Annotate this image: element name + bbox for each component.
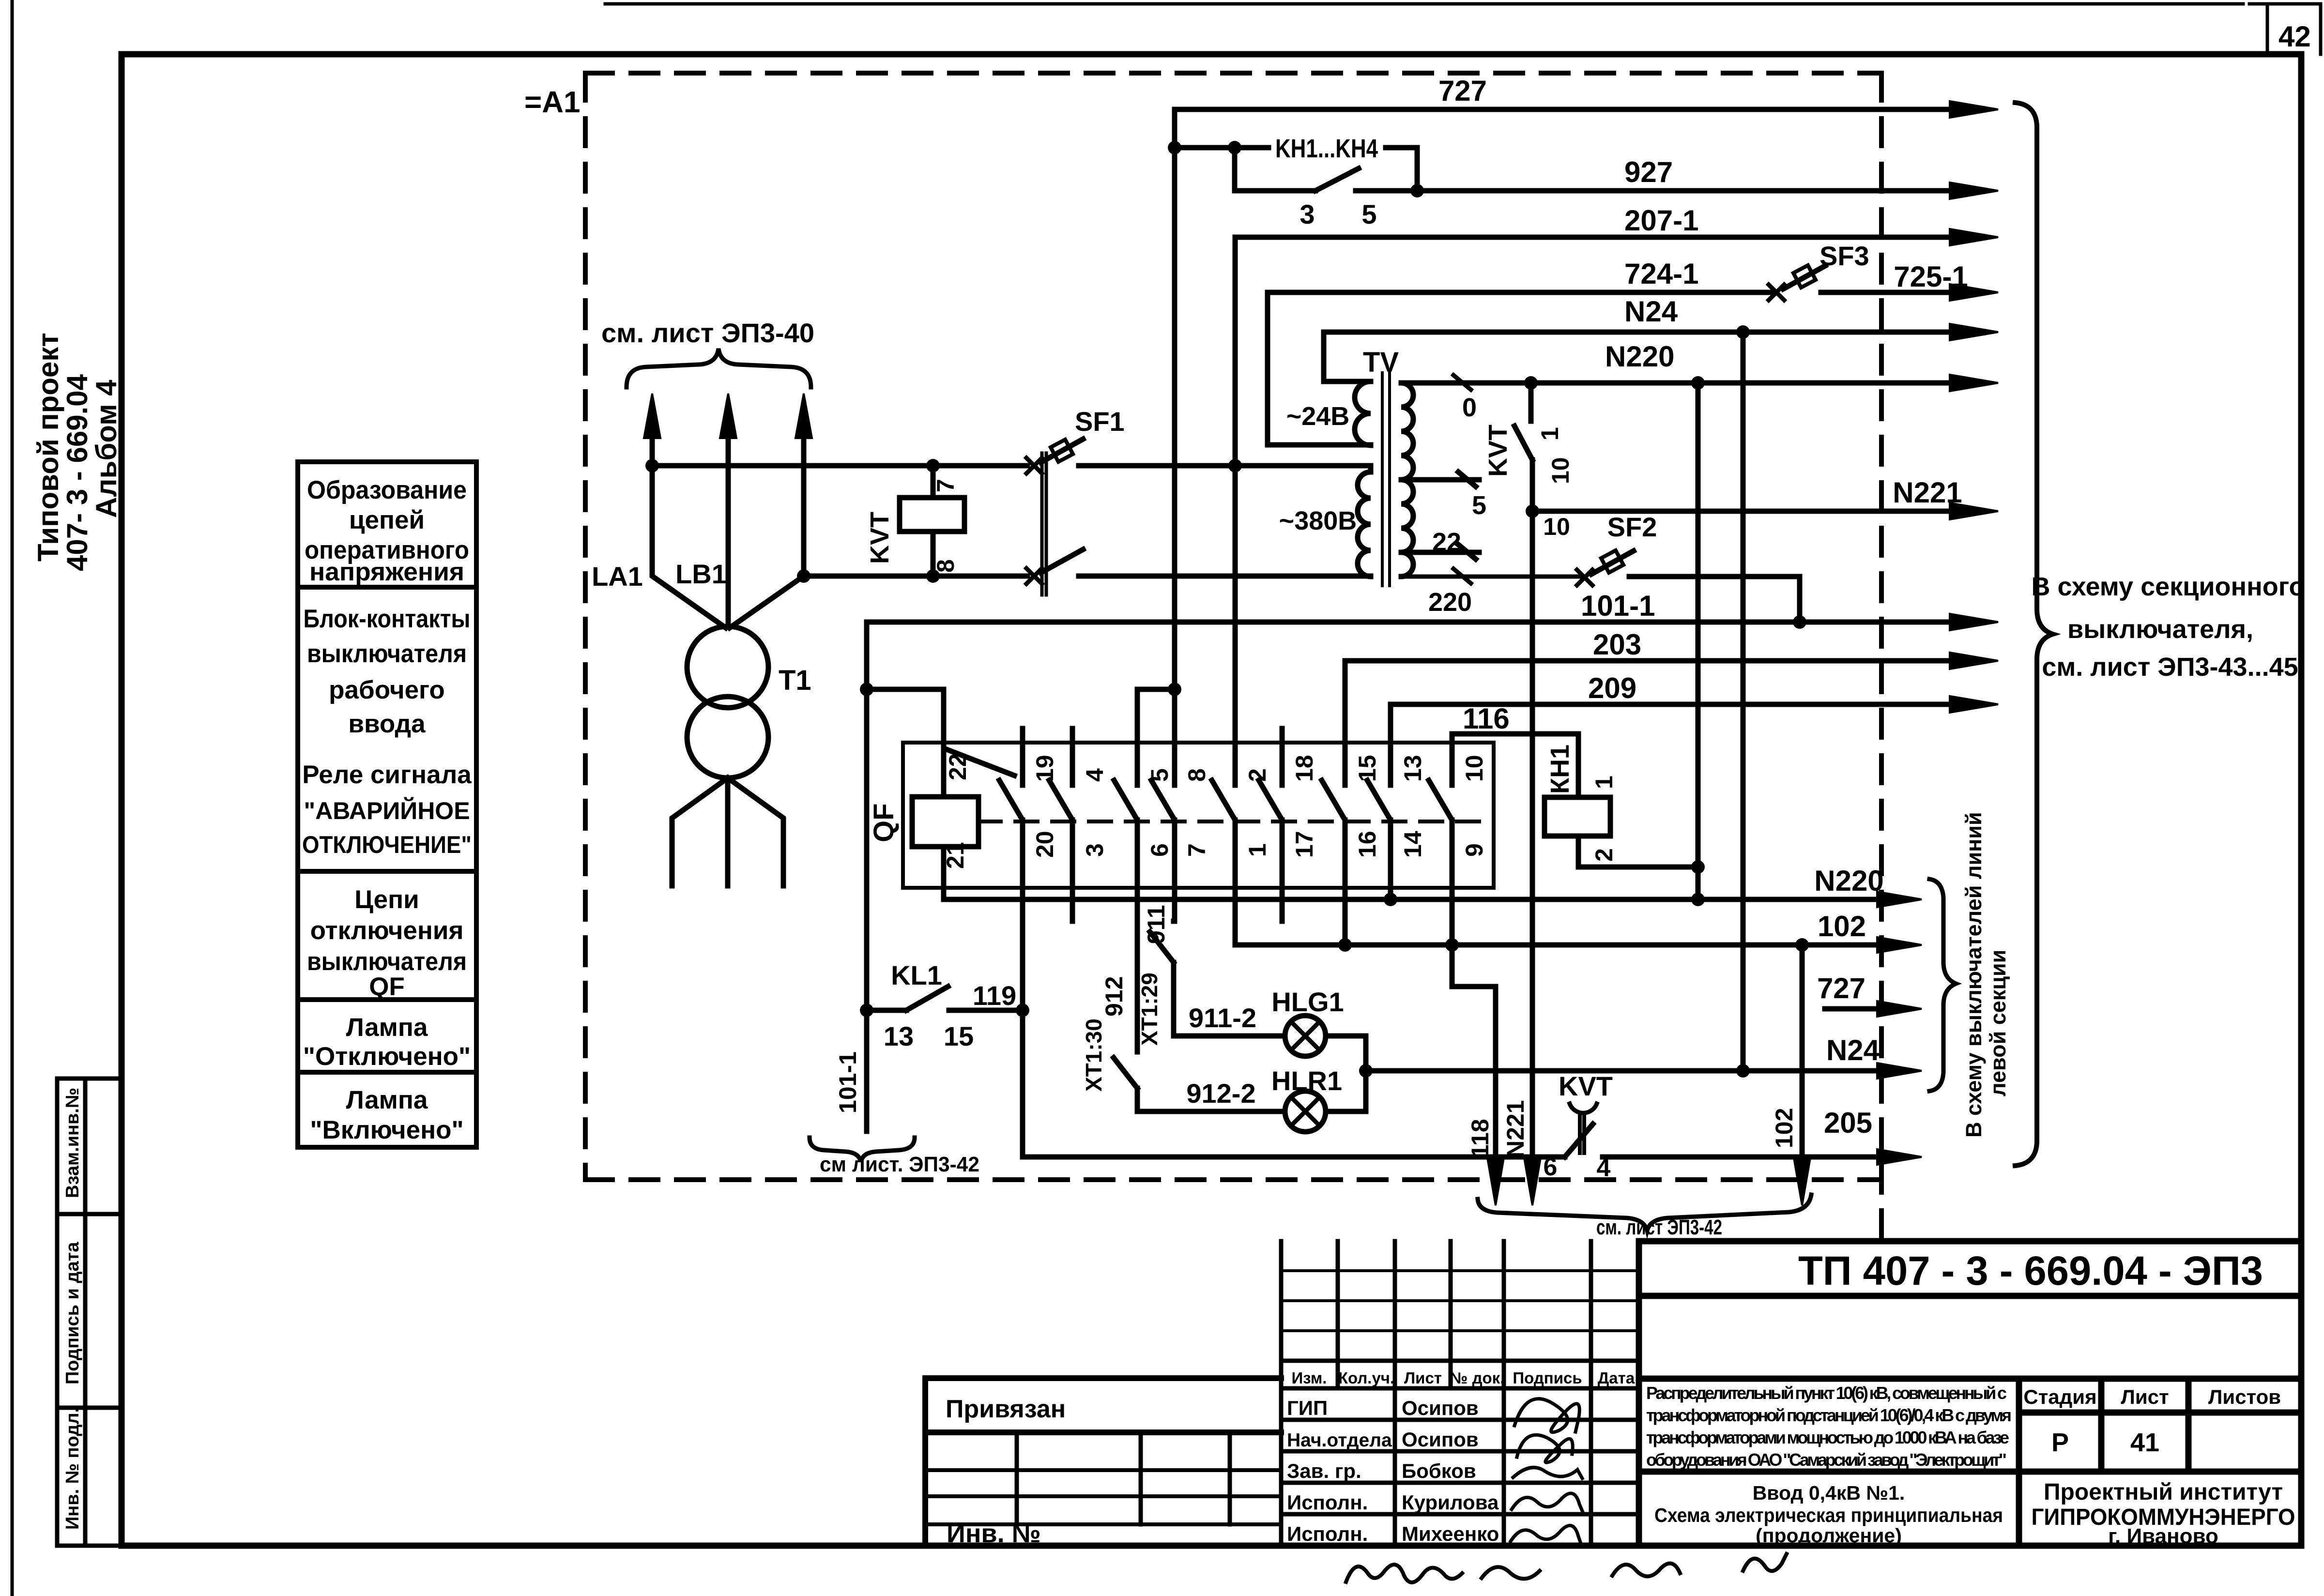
wire 927 [1417,188,1954,194]
svg-text:220: 220 [1428,588,1472,617]
svg-text:13: 13 [1399,755,1426,782]
svg-text:209: 209 [1588,672,1636,704]
svg-text:1: 1 [1590,775,1618,789]
svg-text:ОТКЛЮЧЕНИЕ": ОТКЛЮЧЕНИЕ" [302,831,472,858]
svg-text:Реле сигнала: Реле сигнала [302,760,472,789]
wire 911 [1171,919,1177,924]
svg-text:выключателя: выключателя [307,947,467,976]
svg-text:2: 2 [1590,848,1618,862]
label Образование цепей оперативного напряжения [305,476,469,586]
svg-text:Кол.уч.: Кол.уч. [1338,1369,1394,1387]
svg-text:см лист. ЭП3-42: см лист. ЭП3-42 [820,1153,979,1176]
wire 102 bottom [1235,942,1881,948]
stamp column boxes [57,1079,122,1546]
QF contact 8/7 [1151,689,1175,921]
svg-text:7: 7 [932,479,959,492]
tap 22 [1401,545,1479,559]
lamp HLG1 [1285,1016,1326,1056]
TV winding ~380B [1358,466,1371,577]
node QF pin5/8 feed [1168,683,1181,696]
QF dashed linkage line [979,820,1482,823]
node LA1 on upper bus [645,459,659,472]
svg-text:725-1: 725-1 [1894,260,1968,293]
sheet left edge line [11,0,14,1596]
svg-text:912-2: 912-2 [1186,1078,1255,1109]
svg-text:Лампа: Лампа [346,1086,428,1114]
svg-text:3: 3 [1300,199,1315,229]
label Реле сигнала АВАРИЙНОЕ ОТКЛЮЧЕНИЕ [302,760,472,858]
svg-text:17: 17 [1291,831,1318,858]
svg-text:выключателя: выключателя [307,639,467,668]
svg-text:N220: N220 [1814,865,1883,897]
contact KH1...KH4 [1175,148,1417,191]
QF contact 15/16 [1322,661,1345,945]
svg-text:4: 4 [1597,1154,1611,1182]
QF contact 2/1 [1212,743,1235,945]
contact XT1:29 [1150,932,1174,1036]
svg-text:407- 3 - 669.04: 407- 3 - 669.04 [61,374,93,571]
svg-text:"АВАРИЙНОЕ: "АВАРИЙНОЕ [304,797,470,824]
brace over incoming arrows [627,349,811,387]
svg-text:Зав. гр.: Зав. гр. [1287,1459,1361,1482]
lamp common wire [1326,1036,1366,1111]
wire 205 [1023,1010,1565,1157]
svg-text:"Отключено": "Отключено" [303,1042,471,1071]
wire 912-2 [1137,1109,1285,1114]
svg-text:19: 19 [1031,755,1058,782]
svg-text:102: 102 [1771,1108,1798,1148]
label Лампа Отключено [303,1013,471,1071]
wire 203 [1345,661,1954,743]
svg-text:QF: QF [369,973,405,1001]
svg-text:(продолжение): (продолжение) [1756,1524,1902,1547]
wire N220 [1401,380,1954,386]
svg-text:7: 7 [1183,843,1210,857]
svg-text:6: 6 [1544,1153,1558,1181]
approval rows [1287,1397,1499,1545]
relay KH1 [1544,797,1610,836]
svg-text:16: 16 [1354,831,1381,858]
lamp HLR1 right wire [1326,1109,1366,1114]
sheet title [1654,1482,2003,1547]
label boxes [298,462,476,1147]
QF contact 4/3 [1049,729,1072,921]
svg-text:N221: N221 [1502,1100,1529,1158]
svg-text:ГИП: ГИП [1287,1397,1328,1419]
svg-text:101-1: 101-1 [1581,590,1655,622]
QF contact 13/14 [1367,704,1391,899]
wire N221 [1532,509,1954,514]
wire 724-1 [1268,292,1773,445]
svg-text:левой секции: левой секции [1986,950,2010,1096]
svg-text:6: 6 [1146,843,1173,857]
revision grid [1281,1241,1639,1546]
svg-text:Изм.: Изм. [1292,1369,1327,1387]
svg-text:Инв. №: Инв. № [947,1519,1041,1548]
svg-text:Курилова: Курилова [1402,1491,1499,1514]
svg-text:T1: T1 [779,665,811,696]
institute name [2032,1479,2295,1548]
svg-text:724-1: 724-1 [1624,258,1698,290]
svg-text:выключателя,: выключателя, [2067,615,2253,644]
svg-text:3: 3 [1081,843,1108,857]
svg-text:~24B: ~24B [1286,402,1350,431]
node 207-1 tap on SF1 output [1228,459,1242,472]
tap 5 [1401,472,1479,486]
svg-text:Подпись и дата: Подпись и дата [62,1242,83,1384]
QF contact 18/17 [1259,729,1282,921]
wire N24 drop [1741,332,1746,1071]
svg-text:Инв. № подл.: Инв. № подл. [62,1408,83,1530]
svg-text:118: 118 [1467,1119,1494,1158]
wire 102 descender [1800,945,1805,1162]
wire N220 drop [1696,383,1701,899]
svg-text:см. лист ЭП3-42: см. лист ЭП3-42 [1596,1216,1722,1239]
svg-text:напряжения: напряжения [309,558,464,586]
svg-text:Исполн.: Исполн. [1287,1491,1368,1514]
T1 secondary stubs [672,778,783,886]
svg-text:101-1: 101-1 [834,1051,861,1113]
label Блок-контакты выключателя рабочего ввода [304,605,471,738]
QF coil [912,797,979,847]
svg-text:XT1:29: XT1:29 [1137,973,1162,1046]
QF pin 22 wire [944,689,1014,797]
handwritten note below frame [1346,1554,1787,1582]
wire upper bus 962 [652,463,1027,469]
svg-text:LA1: LA1 [592,561,643,592]
svg-text:LB1: LB1 [675,559,727,589]
svg-text:Типовой проект: Типовой проект [32,333,64,562]
label Цепи отключения выключателя QF [307,885,467,1001]
svg-text:41: 41 [2130,1428,2159,1457]
svg-text:Подпись: Подпись [1513,1369,1582,1387]
svg-text:KVT: KVT [1483,425,1513,477]
svg-text:1: 1 [1536,427,1563,441]
svg-text:0: 0 [1462,393,1477,422]
svg-text:Привязан: Привязан [946,1395,1066,1423]
svg-text:Лист: Лист [2121,1385,2169,1408]
TV core [1382,373,1390,586]
label Лампа Включено [310,1086,463,1144]
pin 8 of KVT [931,532,936,576]
wire 912 [1135,919,1140,924]
svg-text:Взам.инв.№: Взам.инв.№ [62,1088,83,1198]
transformer T1 [687,626,768,708]
svg-text:см. лист ЭП3-43...45: см. лист ЭП3-43...45 [2042,653,2298,682]
svg-text:Стадия: Стадия [2023,1385,2096,1408]
svg-text:203: 203 [1593,628,1641,661]
node N220 KVT pin [1524,376,1538,390]
stage/sheet headers [2023,1385,2281,1457]
svg-text:Листов: Листов [2208,1385,2281,1408]
QF contact 10/9 [1429,734,1452,987]
svg-text:727: 727 [1817,972,1865,1004]
svg-text:911-2: 911-2 [1189,1003,1256,1033]
node N24 branch [1736,325,1750,339]
QF pin 21 wire [941,847,947,899]
svg-text:оборудования ОАО "Самарский за: оборудования ОАО "Самарский завод "Элект… [1646,1450,2007,1470]
svg-text:Проектный институт: Проектный институт [2044,1479,2283,1505]
contact KVT (voltage relay) top [1514,383,1532,511]
svg-text:Цепи: Цепи [354,885,419,914]
incoming arrow A [650,404,655,466]
contact XT1:30 [1114,1058,1137,1111]
QF contact 5/6 [1114,689,1175,1052]
node N220 branch [1691,376,1705,390]
incoming arrow C [801,404,807,576]
svg-text:Нач.отдела: Нач.отдела [1287,1430,1392,1451]
tap 220 [1401,569,1581,583]
svg-text:5: 5 [1361,199,1376,229]
node KVT pin7 [926,459,940,472]
wire N221 descender [1530,511,1535,1162]
wire LA1 vertical [652,466,726,628]
dashed cabinet box =A1 [585,73,1881,1239]
wire phase C diagonal to T1 [730,576,804,628]
brace см лист ЭП3-42 left [810,1138,915,1162]
svg-text:Образование: Образование [307,476,467,504]
svg-text:15: 15 [944,1021,974,1051]
svg-text:Распределительный пункт 10(6): Распределительный пункт 10(6) кВ, совмещ… [1646,1383,2007,1403]
svg-text:22: 22 [1432,528,1461,557]
svg-text:~380B: ~380B [1279,506,1357,535]
svg-text:ТП 407 - 3 - 669.04 - ЭП3: ТП 407 - 3 - 669.04 - ЭП3 [1798,1248,2263,1293]
incoming arrow B [726,404,731,627]
svg-text:HLG1: HLG1 [1271,987,1344,1017]
svg-text:В схему выключателей линий: В схему выключателей линий [1961,812,1986,1138]
object description [1646,1383,2012,1470]
svg-text:Схема электрическая принципиал: Схема электрическая принципиальная [1654,1504,2003,1526]
QF block box [903,743,1494,888]
sheet top edge line [605,2,2321,6]
title block header texts [1292,1369,1635,1387]
svg-text:Осипов: Осипов [1402,1428,1479,1451]
wire 101-1 [867,620,1954,625]
svg-text:22: 22 [944,753,971,780]
svg-text:В схему секционного: В схему секционного [2031,572,2305,601]
svg-text:г. Иваново: г. Иваново [2108,1524,2218,1548]
svg-text:трансформаторной подстанцией 1: трансформаторной подстанцией 10(6)/0,4 к… [1646,1405,2012,1425]
contact KL1 [867,987,1023,1010]
svg-text:XT1:30: XT1:30 [1081,1018,1106,1092]
svg-text:18: 18 [1291,755,1318,782]
svg-text:отключения: отключения [310,916,464,945]
wire 727 bottom [1825,1006,1881,1012]
svg-text:ввода: ввода [348,710,426,738]
TV winding ~24B [1268,381,1371,445]
svg-text:Михеенко: Михеенко [1402,1522,1499,1545]
svg-text:10: 10 [1543,513,1570,540]
wire 209 [1391,704,1954,743]
svg-text:KH1...KH4: KH1...KH4 [1275,134,1378,163]
QF contact 19/20 [999,729,1023,1010]
svg-text:SF1: SF1 [1075,406,1125,437]
small brace to line breakers [1929,879,1956,1091]
svg-text:Бобков: Бобков [1402,1459,1476,1482]
svg-text:N220: N220 [1605,340,1674,373]
svg-text:119: 119 [973,980,1016,1011]
svg-text:912: 912 [1101,976,1128,1017]
svg-text:=A1: =A1 [524,86,580,119]
svg-text:116: 116 [1463,702,1510,735]
tap 0 [1453,375,1471,390]
svg-text:14: 14 [1399,831,1426,858]
svg-text:QF: QF [868,803,900,842]
node N221 tap [1526,504,1539,518]
node phase C on lower bus [797,569,810,583]
svg-text:N221: N221 [1893,476,1962,509]
lamp HLR1 [1285,1091,1326,1132]
svg-text:Исполн.: Исполн. [1287,1522,1368,1545]
svg-text:КН1: КН1 [1545,745,1575,794]
svg-text:Ввод 0,4кВ №1.: Ввод 0,4кВ №1. [1753,1482,1905,1504]
wire 118 [1452,987,1496,1162]
svg-text:Осипов: Осипов [1402,1397,1479,1419]
title block outer [1639,1241,2301,1546]
svg-text:Дата: Дата [1598,1369,1635,1387]
svg-text:Альбом 4: Альбом 4 [90,380,122,518]
brace см. лист ЭП3-42 bottom [1478,1195,1811,1231]
wire 207-1 [1235,237,1954,743]
svg-text:см. лист ЭП3-40: см. лист ЭП3-40 [601,318,814,348]
node KH branch [1168,141,1181,154]
pin 7 of KVT [931,466,936,498]
wire 911-2 [1174,1034,1285,1039]
svg-text:727: 727 [1438,75,1487,107]
note В схему секционного выключателя [2031,572,2305,682]
svg-text:1: 1 [1244,843,1271,857]
svg-text:9: 9 [1461,843,1488,857]
svg-text:10: 10 [1547,457,1574,484]
svg-text:рабочего: рабочего [329,676,445,704]
SF1 upper pole [1026,458,1042,473]
svg-text:205: 205 [1824,1107,1872,1139]
svg-text:№ док.: № док. [1450,1369,1505,1387]
SF1 mechanical tie [1042,453,1046,595]
svg-text:42: 42 [2278,20,2311,53]
svg-text:цепей: цепей [349,506,425,534]
wire N24 [1324,332,1954,381]
svg-text:KL1: KL1 [891,960,942,990]
TV secondary winding [1401,383,1413,577]
svg-text:Блок-контакты: Блок-контакты [304,605,471,633]
wire 727 top line [1175,107,1954,112]
relay coil KVT [900,498,964,532]
node KVT pin8 [926,569,940,583]
svg-text:102: 102 [1818,910,1866,942]
KH1 pin2 wire [1578,836,1698,867]
svg-text:8: 8 [1183,768,1210,782]
wire 101-1 vertical [867,622,944,1131]
svg-text:4: 4 [1081,768,1108,782]
svg-text:927: 927 [1624,156,1673,188]
wire N24 bottom [1366,1068,1881,1074]
svg-text:HLR1: HLR1 [1271,1065,1342,1096]
svg-text:5: 5 [1472,491,1486,520]
wire 116 [1452,734,1578,797]
svg-text:KVT: KVT [1559,1071,1613,1101]
svg-text:N24: N24 [1624,295,1678,328]
big brace to section breaker sheet [2015,103,2053,1166]
node SF2 to 101-1 [1793,615,1806,629]
sheet number box [2267,4,2321,54]
signatures [1511,1399,1583,1545]
svg-text:KVT: KVT [865,512,894,564]
svg-text:"Включено": "Включено" [310,1116,463,1144]
svg-text:13: 13 [884,1021,914,1051]
wire lower bus 1190 [804,574,1027,579]
svg-text:SF2: SF2 [1607,512,1657,542]
svg-text:21: 21 [942,842,969,869]
svg-text:Лист: Лист [1404,1369,1442,1387]
SF1 lower pole [1026,568,1042,584]
svg-text:N24: N24 [1826,1034,1880,1066]
wire 725-1 [1950,284,1998,301]
svg-text:10: 10 [1461,755,1488,782]
svg-text:207-1: 207-1 [1624,204,1698,237]
wire N220 bottom [944,897,1881,902]
wire 727 bus vertical [1172,109,1177,689]
привязан box [925,1378,1281,1546]
svg-text:Р: Р [2051,1428,2069,1457]
svg-text:трансформаторами мощностью до: трансформаторами мощностью до 1000 кВА н… [1646,1428,2009,1447]
svg-text:20: 20 [1031,831,1058,858]
svg-text:Лампа: Лампа [346,1013,428,1042]
